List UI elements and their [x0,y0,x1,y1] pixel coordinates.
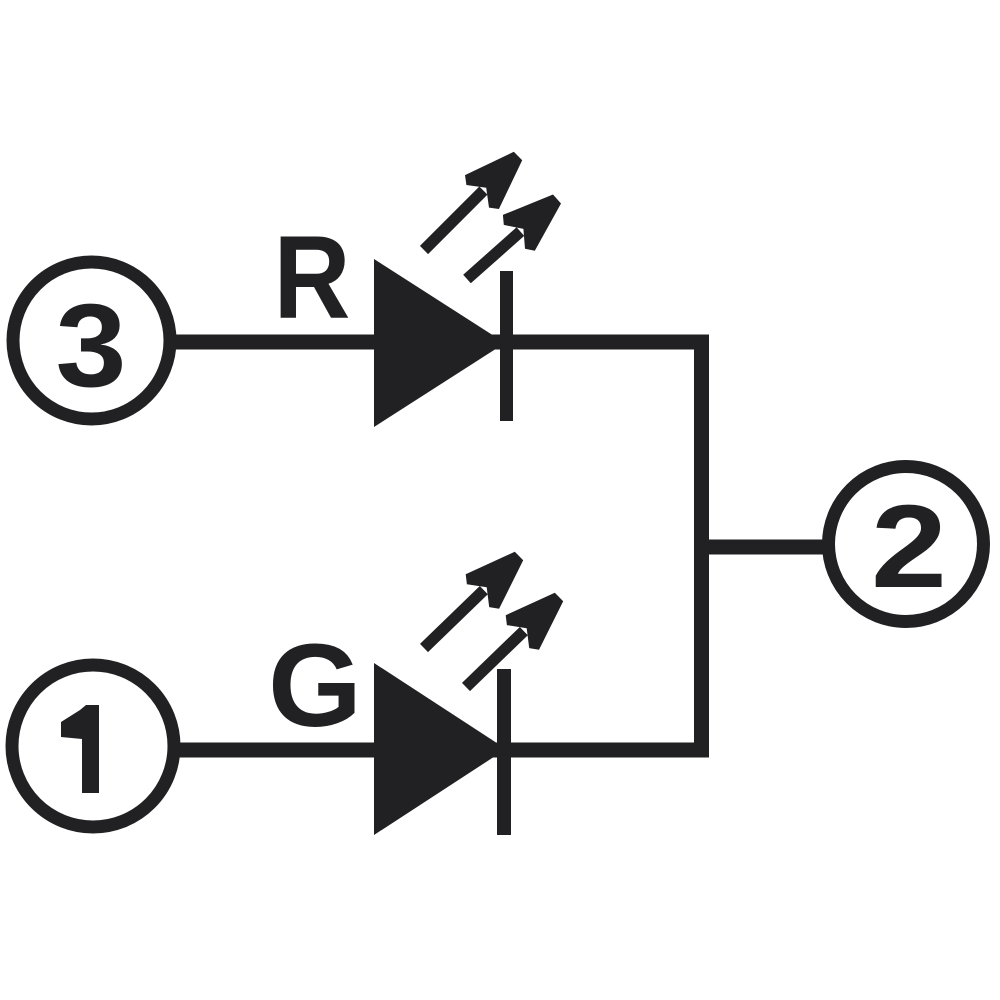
pin 1 number label (custom glyph, no foot serif) [61,705,99,793]
wire pin3 to red LED and on to bus [176,335,709,350]
LED G cathode bar [497,669,511,835]
svg-text:G: G [268,620,362,752]
svg-text:R: R [274,212,351,344]
LED R light arrow 2 [467,195,561,280]
terminal pin 1 [12,665,174,827]
LED R light arrow 1 [424,152,522,250]
LED G light arrow 2 [466,593,563,687]
terminal pin 2 [829,467,984,622]
wire bus to pin 2 [702,540,825,555]
LED R anode triangle [374,259,505,427]
LED G anode triangle [374,663,506,835]
terminal pin 3 [13,262,170,419]
wire pin1 to green LED and on to bus [179,743,709,758]
svg-text:3: 3 [56,280,127,412]
LED G light arrow 1 [424,552,523,648]
LED R cathode bar [500,271,513,421]
svg-text:2: 2 [871,481,947,613]
vertical bus wire [694,335,709,758]
